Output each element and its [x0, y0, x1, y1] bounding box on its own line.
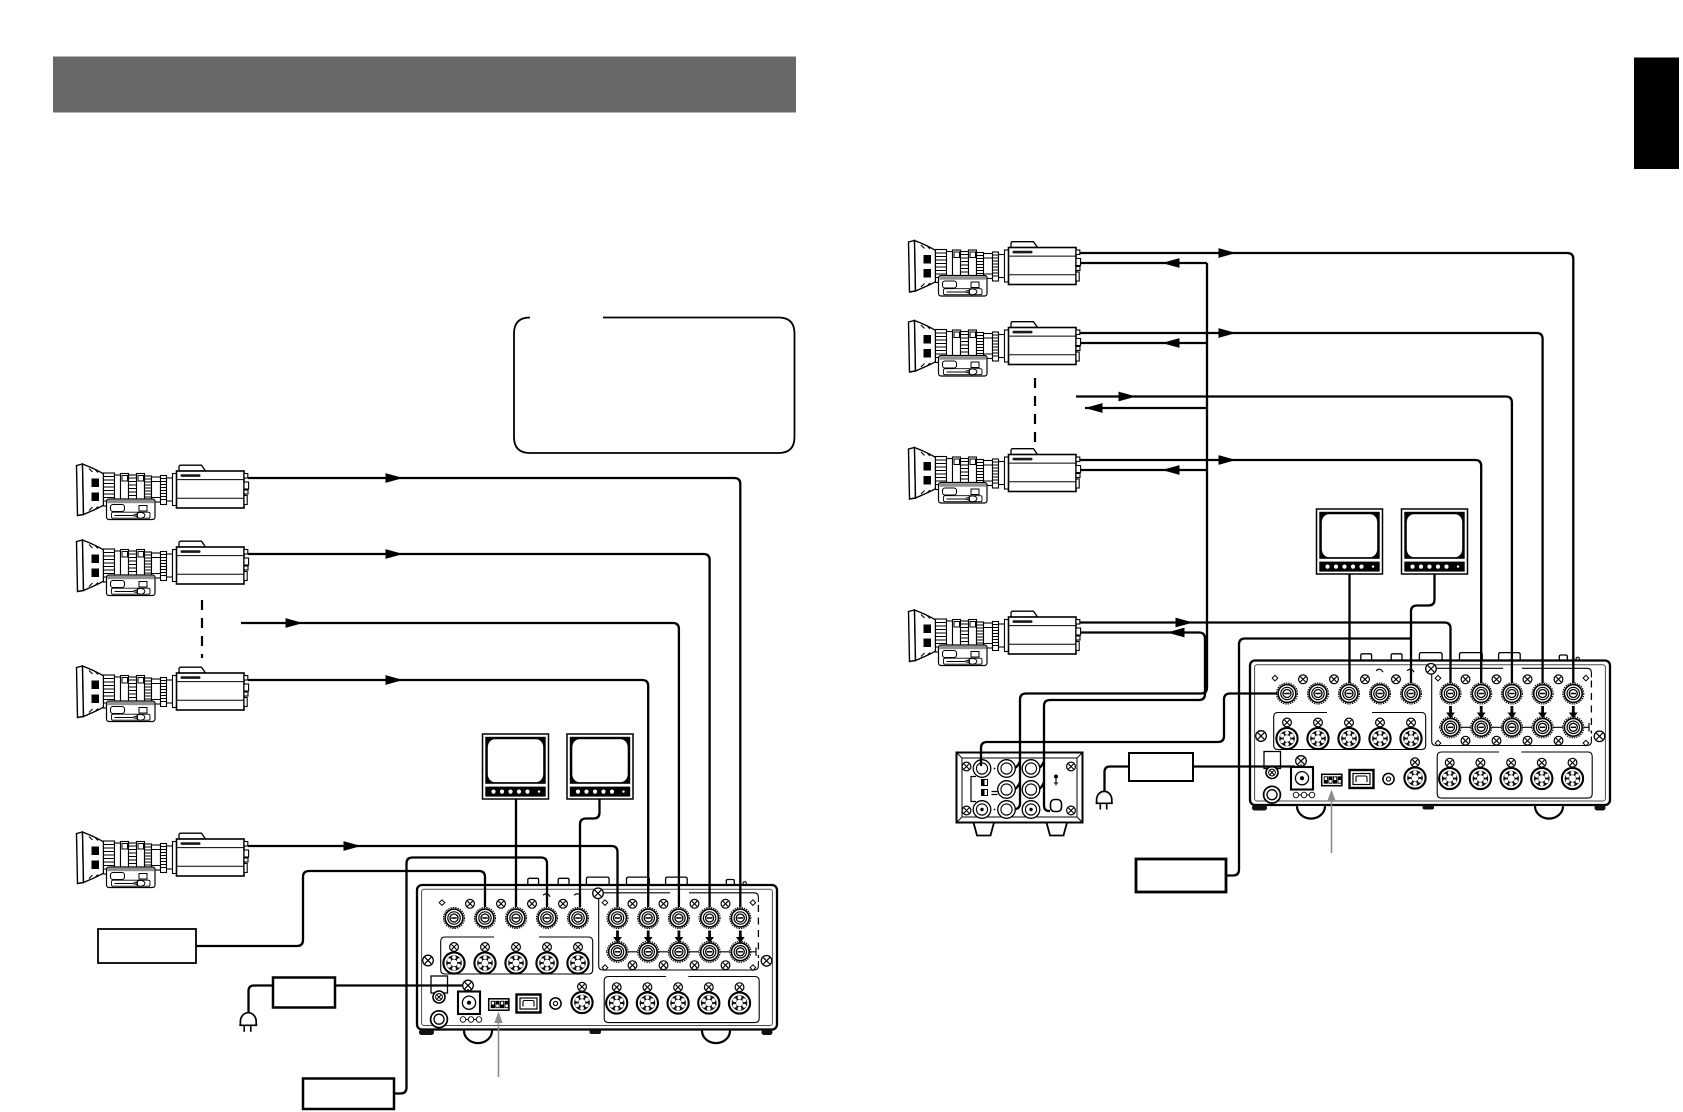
video distribution amplifier box — [77, 241, 1574, 1094]
wire camera4 out to BNC IN1 (left) — [248, 846, 618, 907]
label box 1 (left) — [98, 929, 196, 963]
genlock return line camera3 (right) — [1080, 469, 1207, 471]
gray callout arrow to DIP switch (left) — [494, 1012, 502, 1078]
video monitor 1 (right) — [1317, 509, 1383, 574]
wire camera3 out to BNC IN2 (right) — [1080, 460, 1481, 683]
wire monitor1 to program BNC (left) — [515, 799, 517, 907]
mixer WJ-MX50 (left) — [417, 877, 777, 1043]
convertible camera 1 (left) — [77, 464, 249, 520]
wire monitor2 to program BNC (right) — [1411, 574, 1435, 683]
video monitor 2 (right) — [1402, 509, 1468, 574]
convertible camera 2 (right) — [909, 321, 1081, 377]
page edge tab (black) — [1634, 58, 1679, 170]
wire camera4 out to BNC IN1 (right) — [1080, 623, 1451, 684]
note box (rounded, empty) — [514, 318, 795, 454]
wire label boxB to monitor2 line (right) — [1226, 639, 1411, 876]
wire monitor2 to program BNC (left) — [580, 799, 600, 907]
wire label box1 to program BNC2 (left) — [196, 871, 485, 946]
wire AC adaptor to DC-in (left) — [335, 984, 462, 986]
label box 3 (left) — [303, 1079, 394, 1110]
convertible camera 3 (right) — [909, 448, 1081, 504]
wire monitor1 to program BNC (right) — [1348, 574, 1350, 683]
video monitor 1 (left) — [483, 734, 549, 799]
wire camera1 out to BNC IN5 (right) — [1080, 253, 1573, 683]
label box 2 AC adaptor (left) — [273, 978, 335, 1008]
dashed continuation line (right) — [1034, 378, 1036, 443]
genlock return line camera2 (right) — [1080, 342, 1207, 344]
genlock return line n-th camera (right) — [1085, 407, 1207, 409]
title bar (gray) — [53, 57, 796, 113]
genlock return line camera1 (right) — [1080, 262, 1207, 264]
wire (n-th camera) out to BNC IN3 (right) — [1076, 397, 1512, 684]
label box B (right) — [1136, 859, 1226, 892]
convertible camera 2 (left) — [77, 540, 249, 596]
AC cord to plug (left) — [249, 986, 274, 1013]
AC cord to plug (right) — [1105, 767, 1130, 792]
mixer WJ-MX50 (right) — [1250, 653, 1610, 819]
convertible camera 4 (left) — [77, 832, 249, 888]
genlock return camera4 from VDA output (right) — [1044, 633, 1205, 812]
AC plug (left) — [239, 1013, 257, 1032]
label box A AC adaptor (right) — [1129, 753, 1193, 781]
AC plug (right) — [1096, 791, 1113, 809]
wire camera1 out to BNC IN5 (left) — [248, 478, 740, 907]
convertible camera 3 (left) — [77, 666, 249, 722]
wire camera3 out to BNC IN2 (left) — [248, 680, 648, 907]
wire camera2 out to BNC IN4 (left) — [248, 554, 710, 907]
gray callout arrow to DIP switch (right) — [1327, 790, 1335, 854]
convertible camera 1 (right) — [909, 241, 1081, 297]
wire label box3 to program BNC4 (left) — [394, 858, 547, 1094]
genlock bus from VDA output (right) — [1008, 263, 1207, 810]
wire mixer BB out to VDA input (right) — [981, 694, 1277, 767]
video monitor 2 (left) — [567, 734, 633, 799]
dashed continuation line (left) — [201, 600, 203, 658]
wire camera2 out to BNC IN4 (right) — [1080, 333, 1543, 683]
arrowheads — [286, 248, 1237, 851]
wire (n-th camera) out to BNC IN3 (left) — [241, 623, 679, 907]
wire AC adaptor to DC-in (right) — [1193, 765, 1295, 767]
convertible camera 4 (right) — [909, 610, 1081, 666]
